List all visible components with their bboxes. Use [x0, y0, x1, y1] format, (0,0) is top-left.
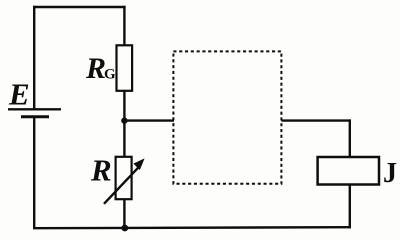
node: junction dot between RG and R — [121, 117, 127, 123]
wire: vertical from right wire down into relay J — [349, 119, 351, 158]
wire: vertical from rheostat R bottom to bottom wire — [123, 199, 125, 228]
wire: top horizontal from battery top to RG branch — [33, 6, 126, 8]
dashed box (black box device) — [173, 51, 281, 183]
wire: horizontal from dashed box right side to J branch — [281, 119, 351, 121]
wire: bottom horizontal from left branch to J branch — [33, 227, 351, 228]
node: junction dot at bottom wire — [121, 225, 128, 232]
svg-text:J: J — [383, 158, 397, 189]
rheostat R body — [116, 157, 132, 199]
battery E: short negative plate — [21, 115, 49, 118]
rheostat R arrow — [104, 167, 139, 204]
wire: vertical from relay J bottom to bottom wire — [349, 185, 351, 229]
svg-text:R: R — [85, 52, 106, 85]
resistor RG body — [117, 45, 133, 91]
wire: left vertical from top wire down to battery positive plate — [33, 6, 35, 109]
svg-text:E: E — [8, 76, 30, 111]
svg-text:G: G — [104, 67, 116, 83]
wire: horizontal from junction node to dashed box left side — [124, 119, 174, 121]
wire: left vertical from battery negative plate down to bottom wire — [33, 117, 35, 229]
wire: vertical from top wire down to resistor RG — [123, 6, 125, 46]
battery E: long positive plate — [8, 108, 61, 110]
svg-text:R: R — [90, 153, 112, 188]
wire: vertical from RG bottom through node to rheostat R top — [123, 91, 125, 158]
relay coil J body — [318, 157, 379, 185]
